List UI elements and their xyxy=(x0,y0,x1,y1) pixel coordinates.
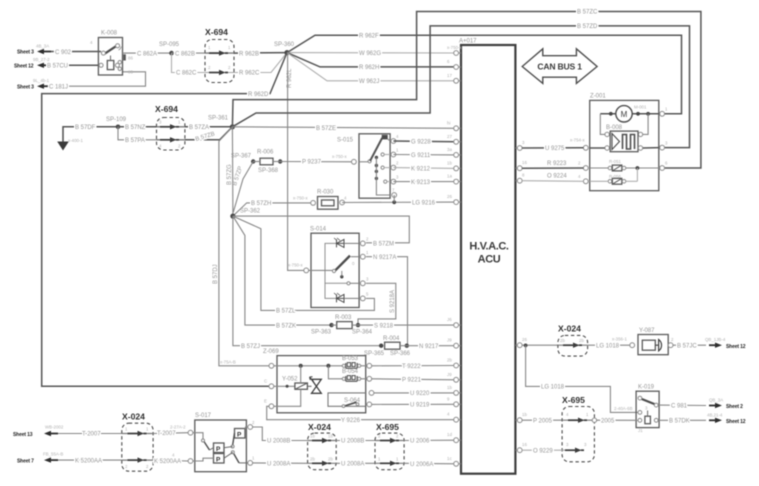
svg-text:SP-363: SP-363 xyxy=(311,330,332,336)
svg-text:K 5200AA: K 5200AA xyxy=(154,459,181,465)
wire B 57ZF (SP-361 to Z-069 pin 1) xyxy=(219,127,272,366)
svg-text:3a: 3a xyxy=(447,147,452,152)
wire U 2006 (to ACU) xyxy=(404,439,456,441)
wire C 902 xyxy=(51,51,101,53)
svg-text:2b: 2b xyxy=(328,456,333,461)
Z-069 coil to pin E link xyxy=(300,366,302,383)
svg-text:hi: hi xyxy=(447,120,450,125)
X-024 bottom-left pin 2 xyxy=(122,459,153,461)
svg-text:G 9228: G 9228 xyxy=(411,140,431,146)
wire W 962G xyxy=(287,52,456,54)
svg-text:x-750-x: x-750-x xyxy=(293,196,308,201)
wire C 181J xyxy=(51,72,146,86)
wire O 9224 xyxy=(522,180,583,183)
svg-text:U 2006: U 2006 xyxy=(410,439,430,445)
S-015 inner contact 2 xyxy=(381,166,384,169)
svg-text:P: P xyxy=(216,446,221,453)
wire B 57JC xyxy=(673,344,706,346)
svg-text:2-27A-2: 2-27A-2 xyxy=(170,425,186,430)
wire B 57ZL xyxy=(233,216,375,310)
svg-text:X-694: X-694 xyxy=(155,104,178,114)
svg-text:Z-069: Z-069 xyxy=(263,349,279,355)
svg-text:C 862A: C 862A xyxy=(137,51,157,57)
svg-text:SP-365: SP-365 xyxy=(364,351,385,357)
svg-text:SP-109: SP-109 xyxy=(106,117,127,123)
wire U 2008A (X-024 to X-695) xyxy=(336,462,375,464)
svg-text:x-754-x: x-754-x xyxy=(570,138,585,143)
junction on S-014 supply branch xyxy=(287,269,289,271)
Z-069 pin U 9220 xyxy=(369,391,374,396)
wire P 2005 (ACU to X-695) xyxy=(522,419,562,421)
wire R 962F xyxy=(287,35,682,114)
svg-text:E: E xyxy=(264,399,267,404)
wire R 962B xyxy=(234,52,287,55)
svg-text:2005: 2005 xyxy=(601,418,615,424)
svg-text:B 57ZK: B 57ZK xyxy=(276,323,296,329)
S-017 pressure sensor P (mid lower) xyxy=(214,454,225,464)
svg-text:9B_27-2: 9B_27-2 xyxy=(33,57,50,62)
wire B 57ZE xyxy=(232,127,456,129)
S-015 position 4 contact pad xyxy=(382,135,388,140)
svg-text:B 57CU: B 57CU xyxy=(47,64,68,70)
svg-text:WB-2002: WB-2002 xyxy=(45,425,64,430)
wire N 9217A xyxy=(366,257,408,346)
wire P 9221 xyxy=(372,379,456,380)
svg-text:2b: 2b xyxy=(579,338,584,343)
svg-text:B 57ZJ: B 57ZJ xyxy=(241,344,260,350)
svg-text:SP-095: SP-095 xyxy=(159,42,180,48)
svg-text:R 962C: R 962C xyxy=(239,71,260,77)
svg-text:Y 9226: Y 9226 xyxy=(341,418,361,424)
svg-text:Sheet 12: Sheet 12 xyxy=(726,344,746,350)
svg-text:SP-366: SP-366 xyxy=(390,351,411,357)
X-695 right pin 3 (O 9229 spare) xyxy=(562,449,583,451)
wire B 57ZD (loop to Z-001 pin 3) xyxy=(232,26,689,148)
wire C 862B xyxy=(172,52,206,54)
wire N 9217 xyxy=(407,345,456,347)
svg-text:SP-361: SP-361 xyxy=(208,116,229,122)
svg-text:K-019: K-019 xyxy=(638,385,655,391)
svg-text:U 2006A: U 2006A xyxy=(410,462,433,468)
wire U 2008B (X-024 to X-695) xyxy=(336,440,375,442)
svg-text:1b: 1b xyxy=(447,160,452,165)
svg-text:1d: 1d xyxy=(447,432,452,437)
svg-text:2-40A-6B: 2-40A-6B xyxy=(614,406,633,411)
S-014 inner frame xyxy=(325,243,349,298)
X-695 bottom-middle pin 1 xyxy=(375,462,404,464)
svg-text:B 57PA: B 57PA xyxy=(125,138,145,144)
wire U 2008B (S-017 to X-024) xyxy=(253,427,308,441)
svg-text:B-053: B-053 xyxy=(342,356,359,362)
S-015 rotary lever xyxy=(370,138,382,161)
svg-text:W 962G: W 962G xyxy=(359,51,381,57)
svg-text:86: 86 xyxy=(128,56,133,61)
svg-text:C 181J: C 181J xyxy=(49,84,68,90)
svg-text:x-400-1: x-400-1 xyxy=(68,138,83,143)
svg-text:x-356-1: x-356-1 xyxy=(612,337,627,342)
X-695 right pin 4 xyxy=(562,419,592,421)
svg-text:W 962J: W 962J xyxy=(359,79,379,85)
svg-text:K 9212: K 9212 xyxy=(411,166,431,172)
S-064 contact xyxy=(345,402,357,406)
wire U 2006A (to ACU) xyxy=(404,462,456,465)
wire T 9222 xyxy=(372,365,456,367)
wire LG 1018 (X-024 to Y-087) xyxy=(588,344,630,346)
svg-text:J9: J9 xyxy=(447,372,452,377)
wire U 9219 xyxy=(372,403,456,405)
S-015 wiper input xyxy=(359,161,369,163)
svg-text:1b: 1b xyxy=(447,385,452,390)
svg-text:S 9218: S 9218 xyxy=(374,323,394,329)
wire B 57ZC (loop to Z-001 pin 6) xyxy=(232,12,701,169)
svg-text:R 962D: R 962D xyxy=(248,92,269,98)
S-014 contact 3 xyxy=(347,282,350,285)
svg-text:ACU: ACU xyxy=(478,254,501,266)
svg-text:B 57NZ: B 57NZ xyxy=(125,125,146,131)
wire B 57ZB xyxy=(185,127,233,140)
svg-text:R-006: R-006 xyxy=(257,150,274,156)
wire G 9211 xyxy=(393,154,456,156)
wire B 57ZA xyxy=(185,126,233,128)
ground X-400 xyxy=(62,128,64,142)
svg-text:T 2007: T 2007 xyxy=(82,432,101,438)
wire K 9213 xyxy=(393,181,456,183)
svg-text:SP-360: SP-360 xyxy=(274,42,295,48)
svg-text:Z-001: Z-001 xyxy=(590,94,606,100)
svg-text:Y-052: Y-052 xyxy=(282,376,298,382)
ACU right edge pins xyxy=(515,147,518,149)
svg-text:N 9217A: N 9217A xyxy=(373,255,396,261)
wire R 962D xyxy=(42,53,287,387)
connector X-694 middle pin 4 xyxy=(157,139,185,141)
svg-text:4B,21-4: 4B,21-4 xyxy=(707,412,723,417)
svg-text:T 9222: T 9222 xyxy=(402,364,421,370)
svg-text:1b: 1b xyxy=(522,412,527,417)
svg-text:Sheet 7: Sheet 7 xyxy=(17,459,34,465)
svg-text:Sheet 12: Sheet 12 xyxy=(14,64,34,70)
svg-text:X-024: X-024 xyxy=(122,412,145,422)
svg-text:S-014: S-014 xyxy=(310,227,327,233)
svg-text:1a: 1a xyxy=(447,174,452,179)
svg-text:B-054: B-054 xyxy=(342,369,359,375)
junction LG 1018 branch xyxy=(524,344,528,348)
svg-text:16: 16 xyxy=(522,442,527,447)
wire B 57DK xyxy=(658,419,706,421)
S-014 contact dot xyxy=(340,275,343,278)
S-015 inner contact 3 xyxy=(384,180,387,183)
B-008 lower pins xyxy=(605,146,609,150)
wire B 57ZP (SP-362 to SP-367) xyxy=(233,162,253,213)
Z-001 motor supply rail xyxy=(600,113,659,115)
S-015 wiper chain to bottom pin 7 xyxy=(376,157,390,195)
wire B 57ZM (SP-362 to S-014 pin 2) xyxy=(233,216,409,243)
svg-text:N 9217: N 9217 xyxy=(419,344,439,350)
svg-text:B 57ZE: B 57ZE xyxy=(316,126,336,132)
S-017 contact from pin 4 xyxy=(193,458,214,461)
svg-text:Sheet 3: Sheet 3 xyxy=(17,85,34,91)
svg-text:B 57ZD: B 57ZD xyxy=(577,24,598,30)
svg-text:X-694: X-694 xyxy=(205,27,228,37)
svg-text:R 9223: R 9223 xyxy=(547,161,567,167)
svg-text:Y-087: Y-087 xyxy=(639,328,655,334)
svg-text:C 862C: C 862C xyxy=(176,71,197,77)
svg-text:X-695: X-695 xyxy=(376,422,399,432)
svg-text:FB_55A-B: FB_55A-B xyxy=(43,452,63,457)
svg-text:x-750-x: x-750-x xyxy=(288,263,303,268)
svg-text:LG 1018: LG 1018 xyxy=(596,343,620,349)
wire O 9229 xyxy=(522,449,562,451)
wire LG 1018 (ACU to X-024) xyxy=(522,344,558,346)
wire C 862C xyxy=(172,53,206,72)
svg-text:B 57ZM: B 57ZM xyxy=(373,241,394,247)
svg-text:U 2008A: U 2008A xyxy=(341,462,364,468)
svg-text:2b: 2b xyxy=(310,456,315,461)
svg-text:CAN BUS 1: CAN BUS 1 xyxy=(537,62,582,72)
svg-text:U 2008B: U 2008B xyxy=(267,439,290,445)
wire K 9212 xyxy=(393,167,456,170)
svg-text:C: C xyxy=(264,379,267,384)
svg-text:T 2007: T 2007 xyxy=(157,431,176,437)
svg-text:U 2008A: U 2008A xyxy=(267,462,290,468)
svg-text:P: P xyxy=(237,431,242,438)
K-019 contact xyxy=(641,399,656,405)
svg-text:16: 16 xyxy=(522,160,527,165)
S-017 contact from pin 1 xyxy=(193,433,203,440)
X-695 bottom-middle pin 2 xyxy=(375,440,404,442)
wire G 9228 xyxy=(393,140,456,143)
CAN BUS 1 arrow xyxy=(522,49,597,84)
svg-text:2b: 2b xyxy=(447,358,452,363)
svg-text:U 2008B: U 2008B xyxy=(341,439,364,445)
wire B 57DF xyxy=(63,126,118,129)
relay K-008 contact xyxy=(105,46,118,54)
relay K-008 xyxy=(98,38,122,76)
wire 2005 (X-695 to K-019) xyxy=(597,419,638,421)
svg-text:QB_1JB-4: QB_1JB-4 xyxy=(705,337,726,342)
svg-text:H.V.A.C.: H.V.A.C. xyxy=(469,241,509,253)
svg-text:2b: 2b xyxy=(560,338,565,343)
svg-text:O 9224: O 9224 xyxy=(547,174,567,180)
svg-text:R 962L: R 962L xyxy=(287,68,293,88)
svg-text:SP-364: SP-364 xyxy=(352,330,373,336)
wire T 2007 (left) xyxy=(58,433,122,435)
svg-text:LG 1018: LG 1018 xyxy=(541,385,565,391)
svg-text:Sheet 2: Sheet 2 xyxy=(726,404,743,410)
svg-text:SP-368: SP-368 xyxy=(258,168,279,174)
svg-text:QB_3A: QB_3A xyxy=(709,398,723,403)
wire R 962C xyxy=(234,53,287,73)
svg-text:4B_3A: 4B_3A xyxy=(36,44,49,49)
svg-text:B 57ZL: B 57ZL xyxy=(276,309,296,315)
svg-text:B 57DF: B 57DF xyxy=(75,125,96,131)
valve symbol xyxy=(312,379,322,393)
motor left loop wire xyxy=(600,114,604,135)
wire S 9218A (S-014 pin 3 to SP-364) xyxy=(358,283,396,325)
svg-text:P 9237: P 9237 xyxy=(302,160,322,166)
svg-text:S-017: S-017 xyxy=(195,413,212,419)
wire R 962L (SP-360 down to S-014 supply) xyxy=(288,53,307,271)
Z-069 pin P 9221 xyxy=(367,376,372,381)
svg-text:R-051: R-051 xyxy=(609,159,622,164)
wire K 5200AA (left) xyxy=(58,459,122,461)
wire W 962J xyxy=(287,53,456,81)
svg-text:R 962F: R 962F xyxy=(359,33,379,39)
svg-text:27: 27 xyxy=(447,134,452,139)
wire R 962H xyxy=(287,53,456,67)
svg-text:P 9221: P 9221 xyxy=(402,378,422,384)
Z-069 pin T 9222 xyxy=(367,363,372,368)
motor right loop wire xyxy=(643,114,648,135)
svg-text:G 9211: G 9211 xyxy=(411,153,431,159)
svg-text:x-750-x: x-750-x xyxy=(447,45,462,50)
S-014 LED lower xyxy=(337,294,345,302)
wire R 9223 xyxy=(522,167,583,169)
wire B 57PA xyxy=(118,127,157,140)
wire U 2008A (S-017 to X-024) xyxy=(253,462,308,464)
svg-text:x-75A-B: x-75A-B xyxy=(220,360,236,365)
svg-text:S 9218A: S 9218A xyxy=(390,290,396,313)
S-014 rotary lever xyxy=(335,256,351,272)
connector X-694 middle pin 3 xyxy=(157,126,185,128)
svg-text:A+017: A+017 xyxy=(459,39,477,45)
ACU left edge pins xyxy=(459,52,462,54)
X-024 bottom-left pin 1 xyxy=(122,433,153,435)
svg-text:C 862B: C 862B xyxy=(175,51,195,57)
svg-text:Sheet 13: Sheet 13 xyxy=(13,432,33,438)
svg-text:SP-367: SP-367 xyxy=(231,154,252,160)
X-024 bottom-middle pin 2b xyxy=(308,462,337,464)
svg-text:B 57ZH: B 57ZH xyxy=(251,201,271,207)
wire P 9237 xyxy=(280,161,354,163)
wire K 5200AA (to S-017) xyxy=(153,459,188,462)
svg-text:K 9213: K 9213 xyxy=(411,180,431,186)
junction of S-015 wiper return on LG 9216 xyxy=(392,200,396,204)
svg-text:P: P xyxy=(216,456,221,463)
wire S 9218 xyxy=(358,324,456,326)
wire B 57ZK xyxy=(233,216,332,325)
svg-text:Sheet 3: Sheet 3 xyxy=(17,50,34,56)
S-017 pressure sensor P (upper right) xyxy=(235,429,246,439)
svg-text:J1: J1 xyxy=(638,428,643,433)
svg-text:P 2005: P 2005 xyxy=(533,418,553,424)
svg-text:B 57DJ: B 57DJ xyxy=(213,264,219,284)
S-015 contact dots xyxy=(375,156,378,159)
wire C 981 xyxy=(658,404,706,406)
wire B 57CU xyxy=(51,64,101,66)
svg-text:B 57JC: B 57JC xyxy=(677,343,697,349)
wire B 57NZ xyxy=(118,126,157,128)
svg-text:R-003: R-003 xyxy=(335,315,352,321)
svg-text:K 5200AA: K 5200AA xyxy=(75,458,102,464)
wire LG 9216 xyxy=(342,201,456,203)
svg-text:M: M xyxy=(621,110,628,119)
wire B 57ZJ (SP-362 down to R-004) xyxy=(233,216,381,346)
S-015 inner contact 1 xyxy=(381,153,384,156)
svg-text:K-008: K-008 xyxy=(101,31,118,37)
svg-text:C 902: C 902 xyxy=(55,50,72,56)
S-017 contact chain right xyxy=(233,433,240,463)
K-019 coil xyxy=(645,416,651,424)
svg-text:26: 26 xyxy=(447,194,452,199)
svg-text:R-004: R-004 xyxy=(383,336,400,342)
relay K-008 coil xyxy=(107,61,114,70)
blower motor M-001 xyxy=(616,106,632,122)
Z-069 internal supply rail xyxy=(274,365,346,367)
svg-text:U 9220: U 9220 xyxy=(410,391,430,397)
wire U 9220 xyxy=(374,392,456,394)
S-014 LED upper xyxy=(337,239,345,247)
wire U 9275 xyxy=(522,147,583,149)
svg-text:LG 9216: LG 9216 xyxy=(412,200,436,206)
svg-text:17: 17 xyxy=(447,73,452,78)
svg-text:Sheet 12: Sheet 12 xyxy=(726,419,746,425)
svg-text:S-015: S-015 xyxy=(337,138,354,144)
svg-text:85: 85 xyxy=(128,70,133,75)
wire B 57ZH xyxy=(233,203,313,216)
R-056 to R-051 junction link xyxy=(636,168,638,181)
X-024 bottom-middle pin 1b xyxy=(308,440,337,442)
svg-text:J9: J9 xyxy=(447,338,452,343)
wire T 2007 (to S-017) xyxy=(153,432,188,435)
svg-text:M-001: M-001 xyxy=(634,105,647,110)
svg-text:X-024: X-024 xyxy=(308,422,331,432)
wire B 57ZG (SP-361 to SP-362) xyxy=(231,127,234,216)
svg-text:U 9275: U 9275 xyxy=(545,146,565,152)
svg-text:O 9229: O 9229 xyxy=(533,448,553,454)
svg-text:B 57ZC: B 57ZC xyxy=(577,10,598,16)
svg-text:C 981: C 981 xyxy=(671,404,688,410)
Z-069 pin U 9219 xyxy=(367,402,372,407)
pin 86 marker of K-008 xyxy=(123,54,126,60)
wire Y 9226 xyxy=(267,406,456,419)
svg-text:1b: 1b xyxy=(328,434,333,439)
svg-text:SP-362: SP-362 xyxy=(240,209,261,215)
svg-text:R 962H: R 962H xyxy=(359,65,379,71)
svg-text:9L_4b-1: 9L_4b-1 xyxy=(33,78,50,83)
wire LG 1018 (branch to K-019) xyxy=(526,345,638,412)
svg-text:X-024: X-024 xyxy=(558,324,581,334)
svg-text:B-008: B-008 xyxy=(606,125,623,131)
svg-text:U 9219: U 9219 xyxy=(410,403,430,409)
svg-text:B 57DK: B 57DK xyxy=(669,419,690,425)
wire C 862A xyxy=(123,52,172,54)
svg-text:X-695: X-695 xyxy=(562,395,585,405)
svg-text:B 57ZA: B 57ZA xyxy=(189,125,209,131)
S-017 pressure sensor P (mid upper) xyxy=(214,443,225,453)
X-024 right pin xyxy=(558,344,588,346)
svg-text:1b: 1b xyxy=(310,434,315,439)
svg-text:R 962B: R 962B xyxy=(239,51,259,57)
svg-text:x-750-x: x-750-x xyxy=(332,154,347,159)
svg-text:1c: 1c xyxy=(447,456,452,461)
svg-text:26: 26 xyxy=(522,337,527,342)
svg-text:J6: J6 xyxy=(447,317,452,322)
svg-text:R-030: R-030 xyxy=(317,190,334,196)
